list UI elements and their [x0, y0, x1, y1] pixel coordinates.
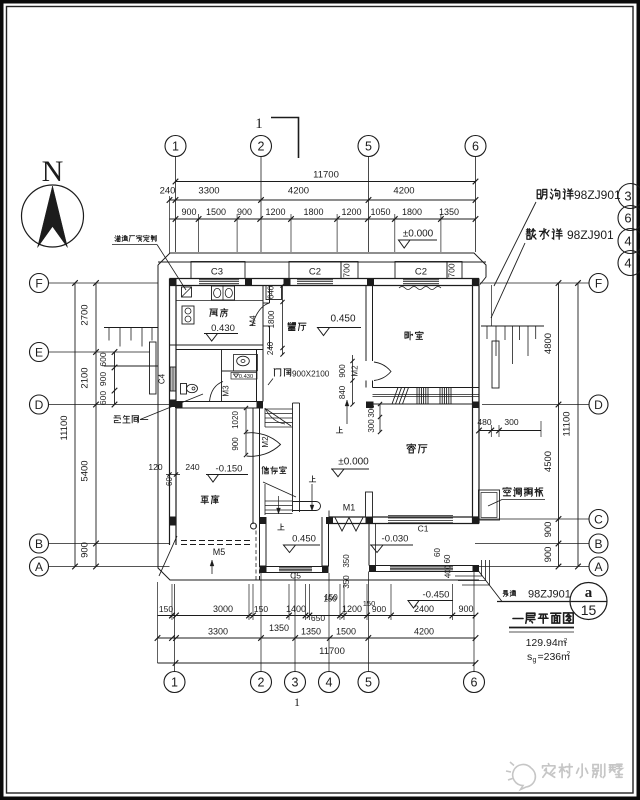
garage door M5 dashed	[181, 540, 253, 542]
svg-text:1400: 1400	[286, 604, 306, 614]
wall: porch front + C5	[260, 566, 329, 568]
svg-text:1350: 1350	[439, 207, 459, 217]
stair center line arrow	[278, 496, 280, 514]
right dim line 11100	[577, 283, 579, 567]
right entry rail	[492, 341, 499, 388]
svg-text:98ZJ901: 98ZJ901	[528, 589, 571, 601]
label yandao changjia dingzhi	[115, 235, 121, 241]
left wall column blocks	[170, 400, 177, 408]
hatch group vertical 1	[416, 388, 418, 405]
grid bubbles left: F E D B A	[30, 274, 49, 293]
stair rail	[292, 403, 294, 512]
room label cheku	[201, 496, 209, 504]
svg-text:-0.450: -0.450	[423, 590, 450, 601]
svg-text:1800: 1800	[303, 207, 323, 217]
grid row lines right	[480, 282, 589, 284]
svg-text:60: 60	[443, 554, 452, 563]
svg-text:0.430: 0.430	[239, 374, 254, 380]
svg-text:1200: 1200	[265, 207, 285, 217]
svg-text:1: 1	[255, 116, 263, 132]
title yiceng pingmiantu	[513, 617, 523, 619]
svg-text:300: 300	[367, 404, 376, 418]
svg-text:1500: 1500	[206, 207, 226, 217]
wall: garage right	[252, 408, 254, 524]
grid row lines left	[49, 282, 159, 284]
wall: dining/bedroom	[365, 286, 367, 362]
wall: kitchen/dining	[262, 286, 264, 350]
svg-text:1: 1	[294, 695, 300, 709]
storage label chucunshi	[262, 466, 269, 474]
svg-text:900: 900	[80, 542, 91, 558]
svg-text:5: 5	[365, 676, 372, 690]
svg-text:-0.030: -0.030	[382, 534, 409, 545]
porch column blocks	[260, 517, 267, 524]
svg-text:0.430: 0.430	[211, 323, 235, 334]
svg-text:D: D	[35, 398, 44, 412]
svg-text:98ZJ901: 98ZJ901	[567, 228, 614, 242]
svg-text:150: 150	[159, 604, 173, 614]
svg-text:1050: 1050	[370, 207, 390, 217]
door M2 storage leaf	[247, 433, 281, 457]
kitchen sink	[212, 286, 235, 300]
svg-text:M5: M5	[213, 547, 226, 557]
window C3 glazing	[199, 279, 239, 281]
svg-text:C3: C3	[211, 267, 223, 278]
room label chufang	[210, 309, 218, 317]
kitchen stove	[182, 306, 194, 324]
stair lower run treads	[265, 500, 293, 502]
door M4 leaf	[252, 303, 270, 326]
window C2 box (dining)	[289, 262, 341, 279]
kitchen interior dims 640/1800/240	[266, 286, 282, 300]
svg-text:600: 600	[98, 352, 108, 366]
svg-text:11100: 11100	[562, 411, 573, 436]
svg-text:650: 650	[311, 613, 325, 623]
wall: top exterior	[158, 261, 486, 263]
svg-text:240: 240	[160, 186, 176, 197]
svg-text:0.450: 0.450	[330, 314, 355, 325]
svg-text:700: 700	[447, 263, 457, 277]
living bottom column blocks	[366, 517, 374, 524]
svg-text:4: 4	[326, 676, 333, 690]
terrace column blocks	[369, 565, 376, 572]
right dim line segments 4800/4500/900/900	[558, 283, 560, 567]
left mini dims 600/900/600	[114, 352, 116, 405]
svg-text:1200: 1200	[342, 604, 362, 614]
svg-text:4: 4	[624, 256, 631, 271]
stair arc at top	[265, 408, 285, 424]
level 0.450 porch	[278, 524, 284, 530]
svg-text:M2: M2	[351, 365, 360, 377]
window C2 glazing (bedroom)	[403, 279, 439, 281]
D wall column blocks	[175, 402, 183, 409]
terrace bottom edge	[369, 565, 479, 567]
wall: living bottom	[329, 516, 480, 518]
window C2 glazing (dining)	[297, 279, 333, 281]
wall: left exterior	[169, 279, 171, 546]
terrace corner steps	[455, 560, 482, 576]
wall: D row (bath bottom)	[170, 401, 264, 403]
svg-text:3300: 3300	[198, 186, 219, 197]
watermark text nongcun xiaobieshu	[543, 764, 555, 778]
svg-text:900: 900	[181, 207, 196, 217]
svg-text:N: N	[42, 155, 64, 188]
svg-text:A: A	[35, 560, 43, 574]
svg-text:±0.000: ±0.000	[338, 457, 369, 468]
grid bubbles top: 1 2 5 6	[165, 136, 186, 157]
stair break line	[263, 482, 296, 497]
detail index circle 4a	[618, 229, 640, 254]
left entry steps	[104, 327, 158, 329]
svg-text:B: B	[594, 537, 602, 551]
bedroom curtain wave	[399, 287, 441, 290]
bath mini level 0.430	[231, 373, 257, 380]
detail index circle 4b	[618, 251, 640, 276]
dim 700 box at C2 dining	[341, 262, 358, 279]
svg-text:900: 900	[543, 522, 554, 538]
svg-text:3: 3	[624, 189, 631, 204]
svg-text:C2: C2	[415, 267, 427, 278]
grid bubbles right: F D C B A	[589, 274, 608, 293]
svg-text:3: 3	[292, 676, 299, 690]
svg-text:840: 840	[338, 385, 347, 399]
detail index circle 6	[618, 206, 640, 231]
terrace left edge	[368, 524, 370, 566]
right entry steps	[481, 325, 544, 327]
svg-text:11700: 11700	[313, 170, 339, 181]
room label keting	[407, 444, 415, 453]
svg-text:5: 5	[365, 140, 372, 154]
bottom dim extension lines	[171, 584, 173, 620]
grid bubble stems top	[175, 157, 177, 253]
svg-text:6: 6	[624, 211, 631, 226]
grid bubble stems bottom	[174, 584, 176, 672]
svg-text:M1: M1	[343, 503, 356, 513]
svg-text:1500: 1500	[336, 627, 356, 637]
svg-text:4200: 4200	[288, 186, 309, 197]
svg-text:2: 2	[567, 651, 571, 658]
window C3 box	[191, 262, 245, 279]
svg-text:900X2100: 900X2100	[292, 370, 330, 379]
svg-text:2400: 2400	[414, 604, 434, 614]
svg-text:400: 400	[444, 564, 453, 578]
up label storage-side	[309, 476, 315, 482]
toilet	[181, 384, 187, 395]
wall: right exterior	[472, 279, 474, 524]
grid bubbles bottom: 1 2 3 4 5 6	[164, 672, 185, 693]
window C4	[169, 367, 171, 391]
dim 900/840 left of M2	[352, 355, 354, 405]
top dim row fine segments	[170, 218, 476, 220]
svg-text:60: 60	[433, 548, 442, 557]
top wall column blocks	[170, 279, 177, 287]
svg-text:350: 350	[342, 575, 351, 589]
detail bubble a/15	[570, 583, 607, 620]
svg-text:150: 150	[323, 595, 337, 604]
detail index circle 3	[618, 184, 640, 209]
label weishengjian-1	[114, 416, 121, 423]
label kongtiao geban	[503, 487, 511, 495]
right wall column block F	[473, 279, 480, 286]
svg-text:6: 6	[472, 140, 479, 154]
svg-text:98ZJ901: 98ZJ901	[574, 188, 621, 202]
kitchen counter line	[176, 300, 263, 302]
svg-text:C5: C5	[290, 571, 301, 581]
svg-text:C: C	[594, 512, 603, 526]
svg-text:900: 900	[237, 207, 252, 217]
annotation sanshui 98ZJ901	[526, 229, 536, 240]
right 4800 region vertical line	[491, 285, 493, 326]
left dim line segments 2700/2100/5400/900	[95, 283, 97, 567]
eave outline	[158, 253, 486, 580]
room label woshi	[405, 332, 413, 340]
svg-text:15: 15	[581, 602, 597, 618]
top dim extension lines	[198, 214, 200, 252]
label menzha 900X2100	[274, 369, 281, 377]
svg-text:1: 1	[172, 140, 179, 154]
svg-text:5400: 5400	[80, 460, 91, 481]
svg-text:C2: C2	[309, 267, 321, 278]
svg-text:4500: 4500	[543, 451, 554, 472]
svg-text:1: 1	[171, 676, 178, 690]
door M1 symbol	[335, 518, 363, 532]
wall: porch right	[321, 517, 323, 567]
top dim row 240/3300/4200/4200	[170, 199, 476, 201]
svg-text:300: 300	[504, 417, 518, 427]
svg-text:129.94m: 129.94m	[526, 637, 567, 649]
svg-text:350: 350	[342, 554, 351, 568]
svg-text:M3: M3	[222, 385, 231, 397]
stair upper run treads	[265, 408, 293, 410]
washbasin	[237, 356, 250, 366]
hatch group diagonal	[392, 388, 398, 405]
watermark logo	[506, 762, 535, 790]
svg-text:60: 60	[165, 477, 174, 486]
wall: porch left	[259, 517, 261, 567]
svg-text:900: 900	[372, 604, 386, 614]
svg-text:A: A	[594, 560, 602, 574]
svg-text:1800: 1800	[402, 207, 422, 217]
svg-text:s: s	[527, 651, 532, 663]
left dim line 11100	[74, 283, 76, 567]
wall pier left of M1	[366, 492, 373, 517]
door M3 leaf	[210, 382, 224, 402]
wall: kitchen/bath	[170, 344, 264, 346]
svg-text:11100: 11100	[59, 415, 70, 440]
up label hall	[346, 400, 348, 424]
bath partition	[221, 350, 223, 402]
kitchen flue	[182, 287, 192, 297]
bottom dim row1 fine	[158, 615, 476, 617]
svg-text:1350: 1350	[269, 623, 289, 633]
svg-text:600: 600	[98, 391, 108, 405]
svg-text:900: 900	[231, 437, 240, 451]
svg-text:B: B	[35, 537, 43, 551]
annotation minggou 98ZJ901	[537, 189, 547, 199]
hatched wall column blocks	[366, 402, 374, 409]
window C2 box (bedroom)	[395, 262, 447, 279]
svg-text:±0.000: ±0.000	[403, 229, 434, 240]
svg-text:=236m: =236m	[538, 651, 571, 663]
svg-text:240: 240	[266, 341, 275, 355]
wall: bath/hall	[256, 350, 258, 402]
svg-text:M4: M4	[249, 315, 258, 327]
svg-text:11700: 11700	[319, 646, 345, 657]
AC platform	[479, 490, 500, 520]
title 98ZJ901 ref	[503, 590, 508, 596]
svg-text:1200: 1200	[341, 207, 361, 217]
svg-text:2: 2	[258, 140, 265, 154]
svg-text:E: E	[35, 345, 43, 359]
svg-text:900: 900	[543, 547, 554, 563]
hatch group vertical 2	[439, 388, 441, 405]
washbasin pedestal	[234, 355, 258, 372]
svg-text:4800: 4800	[543, 333, 554, 354]
svg-text:g: g	[533, 657, 537, 664]
svg-text:120: 120	[148, 462, 162, 472]
door M2 bedroom leaf	[374, 362, 391, 381]
svg-text:6: 6	[471, 676, 478, 690]
svg-text:-0.150: -0.150	[216, 464, 243, 475]
svg-text:1800: 1800	[267, 310, 276, 328]
svg-text:700: 700	[342, 263, 352, 277]
svg-text:4200: 4200	[393, 186, 414, 197]
svg-text:4200: 4200	[414, 627, 434, 637]
svg-text:300: 300	[367, 419, 376, 433]
dim 300/300 below hatched wall	[379, 404, 381, 432]
svg-text:900: 900	[98, 372, 108, 386]
svg-text:640: 640	[267, 285, 276, 299]
svg-text:3300: 3300	[208, 627, 228, 637]
top dim row 11700	[176, 181, 476, 183]
right mini dims 480/300	[479, 430, 541, 432]
svg-text:F: F	[35, 276, 42, 290]
svg-text:2700: 2700	[80, 304, 91, 325]
window C1	[388, 515, 453, 517]
dim 700 box at C2 bedroom	[447, 262, 462, 279]
svg-text:2100: 2100	[80, 367, 91, 388]
svg-text:240: 240	[185, 462, 199, 472]
driveway splay	[159, 536, 177, 576]
svg-text:4: 4	[624, 234, 631, 249]
north arrow symbol	[22, 185, 84, 247]
dim 1020/900 left of stairs	[245, 408, 247, 455]
bottom dim row3 11700	[158, 662, 476, 664]
svg-text:900: 900	[338, 364, 347, 378]
svg-text:2: 2	[258, 676, 265, 690]
svg-text:2: 2	[564, 638, 568, 645]
svg-text:0.450: 0.450	[292, 534, 316, 545]
svg-text:C1: C1	[418, 524, 429, 534]
svg-text:F: F	[595, 276, 602, 290]
svg-text:3000: 3000	[213, 604, 233, 614]
svg-text:a: a	[585, 585, 593, 601]
left entry rail	[150, 342, 157, 394]
svg-text:D: D	[594, 398, 603, 412]
svg-text:1020: 1020	[231, 411, 240, 429]
room label canting	[288, 323, 296, 331]
svg-text:150: 150	[254, 604, 268, 614]
bottom dim row2	[158, 637, 476, 639]
stair rail curve to porch	[293, 501, 317, 503]
wall: bedroom/living hatched	[373, 387, 480, 389]
svg-text:1350: 1350	[301, 627, 321, 637]
svg-text:M2: M2	[261, 436, 270, 448]
svg-text:C4: C4	[158, 373, 167, 384]
svg-text:900: 900	[458, 604, 473, 614]
